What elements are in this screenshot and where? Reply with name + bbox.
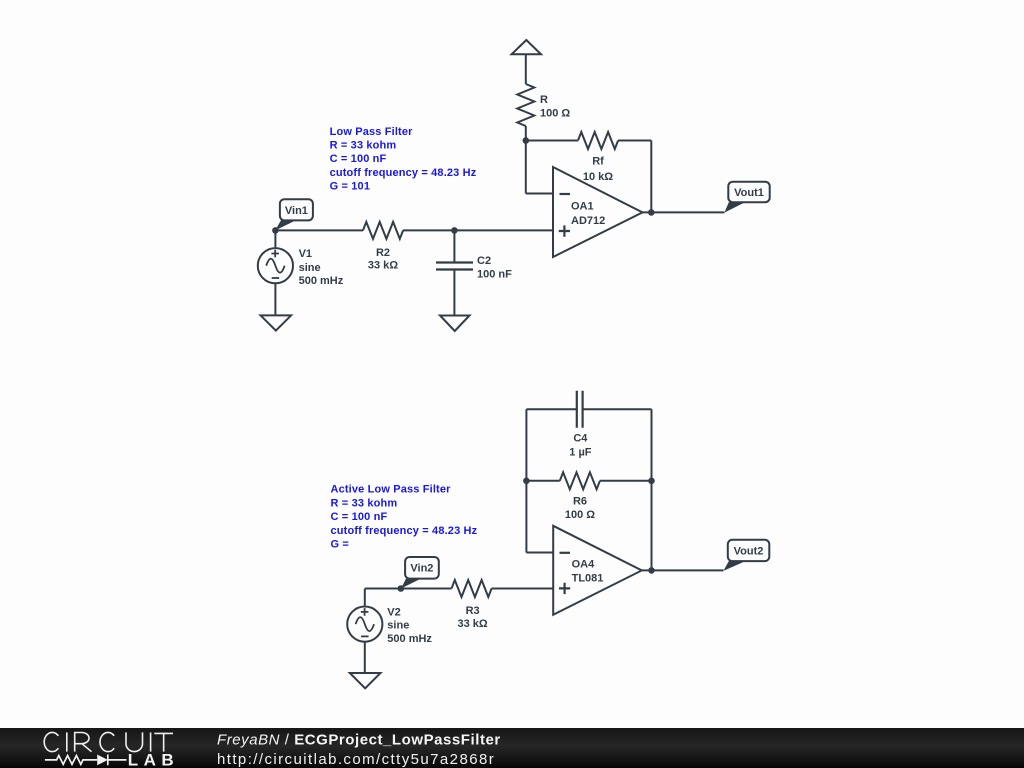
V1 sine glyph: [266, 259, 284, 273]
svg-text:FreyaBN / ECGProject_LowPassFi: FreyaBN / ECGProject_LowPassFilter: [217, 732, 501, 749]
op-amp OA1 triangle: [553, 167, 643, 257]
ground under V2: [350, 673, 381, 688]
wire right rail down to output: [651, 409, 653, 570]
V2 sine glyph: [356, 617, 374, 631]
wire OA4 output to Vout2: [642, 569, 724, 571]
wire V2 to ground: [364, 642, 366, 673]
wire C4 right: [583, 408, 652, 410]
resistor R2: [363, 222, 403, 239]
svg-text:R = 33 kohm: R = 33 kohm: [331, 497, 398, 509]
OA1 minus pin symbol: [560, 193, 571, 195]
footer bar: [0, 728, 1024, 768]
resistor R3: [452, 580, 492, 597]
svg-text:OA1: OA1: [571, 200, 594, 212]
svg-text:G = 101: G = 101: [330, 181, 371, 193]
V1 minus sign: [272, 277, 280, 279]
junction node OA4 output: [648, 567, 655, 574]
wire R2 to OA1 plus input: [403, 229, 553, 231]
svg-text:OA4: OA4: [572, 559, 596, 571]
svg-text:cutoff frequency = 48.23 Hz: cutoff frequency = 48.23 Hz: [331, 525, 478, 537]
svg-text:Low Pass Filter: Low Pass Filter: [330, 126, 414, 138]
svg-text:V1: V1: [299, 248, 312, 260]
junction node at Vin2: [398, 585, 405, 592]
svg-text:100 Ω: 100 Ω: [565, 509, 595, 521]
ground under C2: [440, 316, 470, 332]
svg-text:R6: R6: [573, 495, 587, 507]
wire Vin2 node down to V2: [364, 589, 366, 606]
svg-text:Vin2: Vin2: [410, 563, 433, 575]
flag Vin2: [401, 557, 439, 589]
svg-text:1 µF: 1 µF: [569, 447, 592, 459]
wire right feedback rail down to output: [650, 141, 652, 213]
svg-text:LAB: LAB: [128, 751, 179, 768]
wire V2 node to R3: [365, 588, 452, 590]
flag Vin1: [275, 199, 313, 230]
capacitor C2 plates: [436, 263, 473, 270]
wire left rail down to OA4 minus: [525, 409, 527, 552]
svg-text:cutoff frequency = 48.23 Hz: cutoff frequency = 48.23 Hz: [330, 167, 477, 179]
svg-text:sine: sine: [299, 262, 321, 274]
junction node A (R / Rf): [523, 137, 530, 144]
power supply VCC top: [512, 40, 541, 54]
junction node R6 right: [648, 478, 655, 485]
svg-text:Vout1: Vout1: [734, 187, 764, 199]
CircuitLab logo resistor-diode glyph: [45, 755, 127, 766]
wire left rail down from node A: [525, 141, 527, 194]
svg-text:Vout2: Vout2: [734, 546, 764, 558]
wire Vin1 node down to V1: [274, 230, 276, 248]
svg-text:G =: G =: [331, 539, 350, 551]
ground under V1: [261, 315, 292, 330]
flag Vout2: [723, 540, 769, 571]
flag Vout1: [724, 182, 769, 213]
capacitor C4 plates: [577, 391, 583, 428]
svg-text:100 Ω: 100 Ω: [540, 108, 570, 120]
svg-text:http://circuitlab.com/ctty5u7a: http://circuitlab.com/ctty5u7a2868r: [217, 751, 495, 768]
voltage source V1 circle: [258, 248, 293, 283]
junction node C2 top: [451, 227, 458, 234]
wire to OA4 inverting input: [526, 552, 553, 554]
wire R3 to OA4 plus input: [492, 588, 554, 590]
CircuitLab logo wordmark CIRCUIT: [44, 732, 173, 751]
svg-text:sine: sine: [387, 620, 409, 632]
V2 plus sign: [361, 608, 369, 616]
wire node A to Rf: [526, 140, 578, 142]
junction node OA1 output: [648, 209, 655, 216]
svg-text:C = 100 nF: C = 100 nF: [331, 511, 388, 523]
svg-text:100 nF: 100 nF: [477, 268, 512, 280]
wire C2 to ground: [453, 270, 455, 316]
wire C2 node down: [453, 230, 455, 262]
svg-text:10 kΩ: 10 kΩ: [583, 171, 613, 183]
op-amp OA4 triangle: [553, 526, 642, 615]
wire Rf to right rail: [618, 140, 651, 142]
wire Vin1 node to R2: [275, 229, 363, 231]
wire OA1 output to Vout1: [643, 211, 725, 213]
svg-text:R: R: [540, 94, 548, 106]
resistor Rf (feedback): [578, 132, 618, 149]
V2 minus sign: [361, 635, 369, 637]
svg-text:500 mHz: 500 mHz: [387, 633, 432, 645]
svg-text:R2: R2: [376, 247, 390, 259]
svg-text:AD712: AD712: [571, 215, 605, 227]
voltage source V2 circle: [347, 607, 382, 642]
svg-text:Vin1: Vin1: [285, 205, 308, 217]
OA4 plus pin symbol: [559, 583, 570, 594]
svg-text:500 mHz: 500 mHz: [299, 275, 344, 287]
svg-text:C4: C4: [573, 433, 588, 445]
svg-text:R = 33 kohm: R = 33 kohm: [330, 140, 397, 152]
svg-text:C2: C2: [477, 255, 491, 267]
V1 plus sign: [271, 250, 279, 258]
svg-text:R3: R3: [466, 605, 480, 617]
svg-text:Active Low Pass Filter: Active Low Pass Filter: [331, 484, 452, 496]
wire V1 to ground: [274, 283, 276, 315]
resistor R (vertical): [517, 84, 534, 126]
svg-text:33 kΩ: 33 kΩ: [368, 260, 398, 272]
resistor R6: [560, 472, 600, 489]
OA1 plus pin symbol: [559, 225, 570, 236]
wire to OA1 inverting input: [526, 193, 553, 195]
svg-text:33 kΩ: 33 kΩ: [457, 618, 487, 630]
wire C4 left: [526, 408, 576, 410]
OA4 minus pin symbol: [560, 552, 571, 554]
wire VCC to R: [525, 54, 527, 84]
svg-text:C = 100 nF: C = 100 nF: [330, 153, 387, 165]
junction node at Vin1: [272, 227, 279, 234]
svg-text:TL081: TL081: [572, 573, 604, 585]
svg-text:Rf: Rf: [592, 156, 604, 168]
junction node R6 left: [523, 478, 530, 485]
wire R6 right lead: [600, 480, 652, 482]
wire R to node A: [525, 126, 527, 141]
wire R6 left lead: [526, 480, 559, 482]
svg-text:V2: V2: [387, 606, 400, 618]
